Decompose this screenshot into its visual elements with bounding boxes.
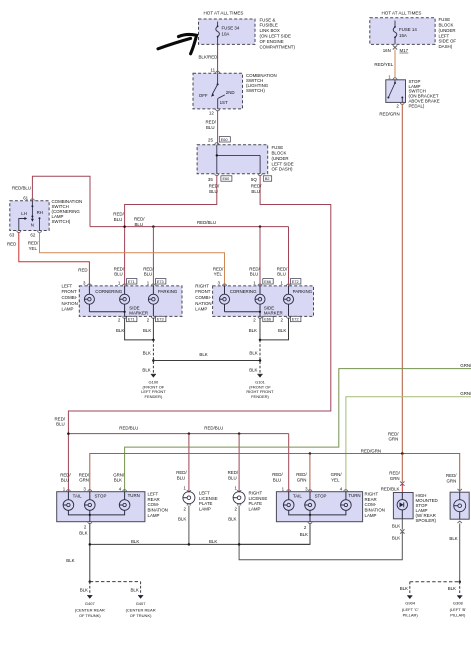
svg-text:BLK: BLK <box>114 478 122 483</box>
svg-text:DASH): DASH) <box>439 44 453 49</box>
wire drop RED/GRN to right rear stop pin3 <box>309 454 311 492</box>
svg-text:LAMP: LAMP <box>365 513 377 518</box>
ground G407 right <box>126 596 156 619</box>
wire BLK right license ground <box>238 506 240 545</box>
label: combination switch (cornering lamp switch) <box>52 199 83 224</box>
svg-text:FUSE: FUSE <box>272 145 284 150</box>
svg-text:E66: E66 <box>264 280 271 284</box>
wire drop RED/BLU to right license lamp <box>238 434 240 492</box>
cornering bulb right <box>220 286 261 312</box>
svg-text:GRN/BLK: GRN/BLK <box>460 363 471 368</box>
svg-text:RED/GRN: RED/GRN <box>379 111 399 116</box>
svg-text:RED/: RED/ <box>206 120 217 125</box>
svg-text:BLK: BLK <box>249 367 257 372</box>
svg-text:OF DASH): OF DASH) <box>272 167 294 172</box>
svg-text:RED/: RED/ <box>28 241 39 246</box>
svg-text:COMPARTMENT): COMPARTMENT) <box>260 44 296 49</box>
svg-text:BLK: BLK <box>392 523 400 528</box>
svg-text:RH: RH <box>37 210 43 215</box>
svg-text:YEL: YEL <box>331 478 340 483</box>
svg-text:OF TRUNK): OF TRUNK) <box>130 613 152 618</box>
svg-text:35: 35 <box>208 177 213 182</box>
label: fuse block (under left side of dash) <box>439 17 457 49</box>
svg-text:BLU: BLU <box>144 272 153 277</box>
svg-text:COM-: COM- <box>148 502 160 507</box>
svg-text:FUSE: FUSE <box>439 17 451 22</box>
svg-text:62: 62 <box>30 233 35 238</box>
svg-text:N: N <box>31 223 34 228</box>
svg-text:11: 11 <box>211 68 216 73</box>
svg-text:BLK/RED: BLK/RED <box>199 55 218 60</box>
right rear combination lamp box <box>276 492 362 522</box>
svg-text:BLOCK: BLOCK <box>439 23 454 28</box>
svg-text:G407: G407 <box>136 601 147 606</box>
svg-text:RED: RED <box>7 242 16 247</box>
svg-text:GRN: GRN <box>297 478 307 483</box>
svg-text:RED/: RED/ <box>55 416 66 421</box>
svg-text:YEL: YEL <box>29 246 38 251</box>
wire BLK right rear ground to bus <box>239 523 310 544</box>
svg-text:RED/: RED/ <box>446 473 457 478</box>
svg-text:BLK: BLK <box>142 367 150 372</box>
svg-text:BLK: BLK <box>400 586 408 591</box>
svg-text:G407: G407 <box>85 601 96 606</box>
svg-text:REAR: REAR <box>365 497 377 502</box>
svg-text:BINATION: BINATION <box>148 508 168 513</box>
svg-text:BLK: BLK <box>143 328 151 333</box>
svg-text:RED/: RED/ <box>209 184 220 189</box>
svg-text:RED/: RED/ <box>113 212 124 217</box>
svg-text:RED/: RED/ <box>228 470 239 475</box>
svg-text:SPOILER): SPOILER) <box>416 518 437 523</box>
wire BLK/RED fuse34 to lighting switch <box>217 44 219 73</box>
svg-text:STOP: STOP <box>315 494 327 499</box>
ground wire dashed to G100 <box>152 340 154 373</box>
wire RED pin63 to left cornering lamp <box>19 232 90 286</box>
svg-text:63: 63 <box>9 233 14 238</box>
svg-text:CORNERING: CORNERING <box>230 289 257 294</box>
svg-text:E73: E73 <box>157 280 164 284</box>
svg-text:GRN/: GRN/ <box>331 472 343 477</box>
stop bulb right <box>305 492 316 522</box>
fuse 14 symbol <box>393 21 397 45</box>
label: fuse &amp; fusible link box <box>260 17 296 49</box>
svg-text:RED/: RED/ <box>213 266 224 271</box>
svg-text:FUSE &: FUSE & <box>260 17 276 22</box>
svg-text:(LEFT 'C': (LEFT 'C' <box>402 607 419 612</box>
fuse &amp; fusible link box (dashed) <box>199 19 256 44</box>
svg-text:5Q: 5Q <box>251 177 257 182</box>
wire BLK high mounted ground <box>401 519 403 530</box>
svg-text:BLK: BLK <box>228 517 236 522</box>
parking bulb right <box>284 286 294 317</box>
svg-text:RED/BLK: RED/BLK <box>381 487 400 492</box>
RED/GRN stop lamp bus <box>90 454 460 493</box>
svg-text:M17: M17 <box>400 48 409 53</box>
svg-text:RIGHT: RIGHT <box>365 491 379 496</box>
front RED/BLU bus <box>90 226 289 228</box>
svg-text:BLK: BLK <box>278 328 286 333</box>
svg-text:12: 12 <box>209 111 214 116</box>
svg-text:(UNDER: (UNDER <box>439 28 456 33</box>
svg-text:10A: 10A <box>222 32 230 37</box>
svg-text:BLK: BLK <box>249 328 257 333</box>
wire GRN/BLK left turn signal feed <box>125 369 471 492</box>
label: fuse block (under left side of dash) <box>272 145 294 172</box>
label: stop lamp switch (on bracket above brake pedal) <box>409 79 440 109</box>
svg-text:G308: G308 <box>453 600 464 605</box>
svg-text:REAR: REAR <box>148 497 160 502</box>
svg-text:E71: E71 <box>128 280 135 284</box>
wire drop to right side marker E66 <box>259 227 261 286</box>
svg-text:RED/BLU: RED/BLU <box>204 425 223 430</box>
left rear pin 2 <box>88 522 92 524</box>
svg-text:RED/: RED/ <box>134 217 145 222</box>
svg-text:FUSE 34: FUSE 34 <box>222 26 240 31</box>
svg-text:LAMP: LAMP <box>195 307 207 312</box>
wire RED/YEL fuse14 to stop lamp switch <box>394 50 396 78</box>
svg-text:BLK: BLK <box>130 587 138 592</box>
svg-text:RED/: RED/ <box>272 472 283 477</box>
wire BLK left license ground <box>188 506 190 545</box>
svg-text:BLU: BLU <box>228 475 237 480</box>
svg-text:RIGHT: RIGHT <box>195 283 209 288</box>
svg-text:E72: E72 <box>292 318 299 322</box>
svg-text:LAMP: LAMP <box>199 506 211 511</box>
svg-text:RED/: RED/ <box>249 266 260 271</box>
tail bulb right <box>283 492 310 515</box>
svg-text:TURN: TURN <box>128 493 140 498</box>
svg-text:LEFT: LEFT <box>148 491 159 496</box>
svg-text:RED/: RED/ <box>277 266 288 271</box>
svg-text:RED/: RED/ <box>389 471 400 476</box>
pin 2 <box>400 102 404 104</box>
svg-text:GRN: GRN <box>389 437 399 442</box>
side marker bulb right <box>255 286 265 317</box>
svg-text:B2: B2 <box>265 177 270 181</box>
left rear combination lamp box <box>57 492 145 522</box>
svg-text:OF ENGINE: OF ENGINE <box>260 39 284 44</box>
svg-text:NATION: NATION <box>195 301 211 306</box>
svg-text:2ND: 2ND <box>226 90 235 95</box>
svg-text:PEDAL): PEDAL) <box>409 103 425 108</box>
svg-text:G904: G904 <box>405 600 416 605</box>
svg-text:RED/: RED/ <box>114 266 125 271</box>
svg-text:PILLAR): PILLAR) <box>450 613 466 618</box>
svg-text:LAMP: LAMP <box>148 513 160 518</box>
svg-text:TURN: TURN <box>348 493 360 498</box>
wire RED/BLU pin5Q right and long down to rear bus <box>68 175 330 492</box>
label: right front combination lamp <box>195 283 211 311</box>
label: right license plate lamp <box>249 491 268 512</box>
svg-text:BLU: BLU <box>250 272 259 277</box>
svg-text:PARKING: PARKING <box>158 289 178 294</box>
stop bulb <box>85 492 96 522</box>
svg-text:E73: E73 <box>157 318 164 322</box>
ground G100 <box>141 374 166 399</box>
svg-text:BLK: BLK <box>300 532 308 537</box>
pin 12 <box>216 109 220 111</box>
svg-text:RED/: RED/ <box>79 472 90 477</box>
svg-text:LH: LH <box>21 211 27 216</box>
svg-text:STOP: STOP <box>95 494 107 499</box>
svg-text:PARKING: PARKING <box>293 289 313 294</box>
wire RED/YEL pin62 to right cornering lamp <box>40 232 225 286</box>
turn bulb right <box>310 492 351 515</box>
svg-text:GRN: GRN <box>447 478 457 483</box>
svg-text:BLK: BLK <box>392 536 400 541</box>
svg-text:COMBI-: COMBI- <box>195 295 211 300</box>
wire RED/GRN to high mounted stop lamp <box>401 454 403 483</box>
svg-text:RED/: RED/ <box>388 431 399 436</box>
right lamp bottom pins 2/E66 2/E72 <box>258 316 262 318</box>
BLK crossover bus G100-G101 <box>153 360 260 362</box>
LED symbol <box>397 493 407 519</box>
svg-text:25: 25 <box>208 138 213 143</box>
svg-text:1ST: 1ST <box>220 100 228 105</box>
svg-text:BLK: BLK <box>131 539 139 544</box>
wire drop RED/BLU to left license lamp <box>188 434 190 492</box>
svg-text:BLU: BLU <box>206 125 215 130</box>
svg-text:SIDE OF: SIDE OF <box>439 39 457 44</box>
svg-text:GRN: GRN <box>390 476 400 481</box>
wire BLK right lamp ground <box>459 523 461 581</box>
ground G101 <box>246 374 274 399</box>
svg-text:BLK: BLK <box>143 350 151 355</box>
right rear pin 2 <box>308 522 312 524</box>
label: high mounted stop lamp <box>416 493 438 523</box>
node dots on front bus <box>123 225 126 228</box>
ground G407 left <box>75 596 105 619</box>
wires BLK right lamp grounds <box>260 318 289 340</box>
svg-text:BLU: BLU <box>277 272 286 277</box>
svg-text:(ON LEFT SIDE: (ON LEFT SIDE <box>260 34 291 39</box>
svg-text:BLU: BLU <box>61 478 70 483</box>
fuse block box (dashed, top right) <box>370 18 435 45</box>
pins 63 / 62 <box>17 231 21 233</box>
fuse block (under left side of dash) middle <box>197 145 268 174</box>
svg-text:RED/BLU: RED/BLU <box>197 220 216 225</box>
svg-text:COM-: COM- <box>365 502 377 507</box>
svg-text:TAIL: TAIL <box>293 494 303 499</box>
wire RED/BLU front feed to cornering switch pin 61 <box>32 176 90 226</box>
svg-text:FUSE 14: FUSE 14 <box>399 27 417 32</box>
side marker bulb left <box>120 286 130 317</box>
svg-text:LEFT: LEFT <box>62 283 73 288</box>
svg-text:BLU: BLU <box>114 217 123 222</box>
svg-text:NATION: NATION <box>62 301 78 306</box>
svg-text:RED/: RED/ <box>251 184 262 189</box>
svg-text:SWITCH): SWITCH) <box>52 219 71 224</box>
svg-text:TAIL: TAIL <box>73 494 83 499</box>
label: left rear combination lamp <box>148 491 168 518</box>
ground wire dashed to G101 <box>259 340 261 373</box>
svg-text:PILLAR): PILLAR) <box>403 613 419 618</box>
svg-text:16N: 16N <box>383 48 391 53</box>
svg-text:BLU: BLU <box>177 475 186 480</box>
svg-text:BLU: BLU <box>273 478 282 483</box>
svg-text:BLK: BLK <box>449 536 457 541</box>
svg-text:(UNDER: (UNDER <box>272 156 289 161</box>
dashed junction to G904/G308 <box>458 581 461 584</box>
in-line connector 16N / M17 <box>393 45 397 49</box>
wire BLK left rear ground <box>89 523 91 582</box>
svg-text:HOT AT ALL TIMES: HOT AT ALL TIMES <box>204 11 244 16</box>
svg-text:RED/: RED/ <box>176 470 187 475</box>
wires BLK left lamp grounds <box>125 318 154 340</box>
svg-text:(LEFT 'B': (LEFT 'B' <box>450 607 467 612</box>
svg-text:BLU: BLU <box>56 422 65 427</box>
label: left license plate lamp <box>199 491 218 512</box>
svg-text:RED: RED <box>78 267 87 272</box>
svg-text:FRONT: FRONT <box>62 289 77 294</box>
cornering bulb left <box>84 286 124 312</box>
svg-text:E66: E66 <box>264 318 271 322</box>
svg-text:E60: E60 <box>223 177 230 181</box>
svg-text:BLK: BLK <box>116 328 124 333</box>
left lamp bottom pins 2/E71 2/E73 <box>123 316 127 318</box>
svg-text:BINATION: BINATION <box>365 508 385 513</box>
svg-text:BLK: BLK <box>209 539 217 544</box>
svg-text:RED/BLU: RED/BLU <box>119 425 138 430</box>
svg-text:BLK: BLK <box>448 586 456 591</box>
svg-text:YEL: YEL <box>214 272 223 277</box>
svg-text:(CENTER REAR: (CENTER REAR <box>126 607 156 612</box>
svg-text:BLU: BLU <box>209 189 218 194</box>
svg-text:SWITCH): SWITCH) <box>246 88 265 93</box>
svg-text:BLK: BLK <box>178 517 186 522</box>
svg-text:BLU: BLU <box>251 189 260 194</box>
svg-text:BLK: BLK <box>79 531 87 536</box>
wire RED/BLU pin35 down-left to front bus <box>125 175 217 286</box>
stop lamp switch <box>386 80 406 103</box>
svg-text:OF TRUNK): OF TRUNK) <box>79 613 101 618</box>
dashed junction to G407 grounds <box>89 580 92 583</box>
svg-text:15A: 15A <box>399 33 407 38</box>
turn bulb <box>90 492 130 515</box>
wire drop RED/BLU to right rear lamp pin1 <box>288 434 290 492</box>
svg-text:FRONT: FRONT <box>195 289 210 294</box>
wire drop to right parking E72 <box>288 227 290 286</box>
svg-text:GRN/: GRN/ <box>113 472 125 477</box>
svg-text:RED/GRN: RED/GRN <box>361 448 381 453</box>
rear RED/BLU bus <box>68 433 288 435</box>
svg-text:FENDER): FENDER) <box>145 394 163 399</box>
BLK ground bus rear <box>90 543 310 545</box>
svg-text:BLOCK: BLOCK <box>272 151 287 156</box>
ground G904 <box>402 596 419 618</box>
svg-text:HOT AT ALL TIMES: HOT AT ALL TIMES <box>382 10 422 15</box>
svg-text:COMBI-: COMBI- <box>62 295 78 300</box>
svg-text:E60: E60 <box>221 138 228 142</box>
svg-text:E72: E72 <box>292 280 299 284</box>
svg-text:CORNERING: CORNERING <box>95 289 122 294</box>
svg-text:MARKER: MARKER <box>129 310 148 315</box>
wire GRN/YEL right turn signal feed <box>346 397 471 492</box>
svg-text:BLK: BLK <box>249 350 257 355</box>
svg-text:MARKER: MARKER <box>264 310 283 315</box>
svg-text:RED/: RED/ <box>143 266 154 271</box>
wire RED/BLK into lamp <box>401 484 403 492</box>
svg-text:(CENTER REAR: (CENTER REAR <box>75 607 105 612</box>
svg-text:FENDER): FENDER) <box>251 394 269 399</box>
svg-text:BLK: BLK <box>66 558 74 563</box>
wire RED/GRN stop switch long drop <box>401 104 403 454</box>
svg-text:GRN: GRN <box>79 478 89 483</box>
svg-text:LEFT SIDE: LEFT SIDE <box>272 161 294 166</box>
svg-text:BLU: BLU <box>135 222 144 227</box>
fuse 34 symbol <box>216 22 220 45</box>
label: right rear combination lamp <box>365 491 385 518</box>
svg-text:61: 61 <box>23 196 28 201</box>
svg-text:RED/: RED/ <box>296 472 307 477</box>
svg-text:BLU: BLU <box>114 272 123 277</box>
label: combination switch (lighting switch) <box>246 73 277 93</box>
ground G308 <box>450 596 467 618</box>
svg-text:BLK: BLK <box>80 587 88 592</box>
svg-text:RED/: RED/ <box>60 472 71 477</box>
svg-text:LAMP: LAMP <box>249 506 261 511</box>
svg-text:BLK: BLK <box>199 352 207 357</box>
svg-text:OFF: OFF <box>199 93 208 98</box>
svg-text:FUSIBLE: FUSIBLE <box>260 23 278 28</box>
svg-text:LEFT: LEFT <box>439 33 450 38</box>
label: left front combination lamp <box>62 283 78 311</box>
hand-drawn arrow annotation <box>158 34 197 53</box>
tail bulb <box>63 492 90 515</box>
svg-text:LAMP: LAMP <box>62 307 74 312</box>
wire RED/BLU switch pin12 to fuse block pin25 <box>217 110 219 145</box>
svg-text:RED/BLU: RED/BLU <box>12 186 31 191</box>
svg-text:E71: E71 <box>128 318 135 322</box>
combination switch (lighting switch) S1 <box>193 73 243 109</box>
svg-text:LINK BOX: LINK BOX <box>260 28 280 33</box>
wire drop to left parking E73 <box>152 227 154 286</box>
svg-text:GRN/YEL: GRN/YEL <box>460 391 471 396</box>
svg-text:RED/YEL: RED/YEL <box>374 62 393 67</box>
parking bulb left <box>148 286 158 317</box>
